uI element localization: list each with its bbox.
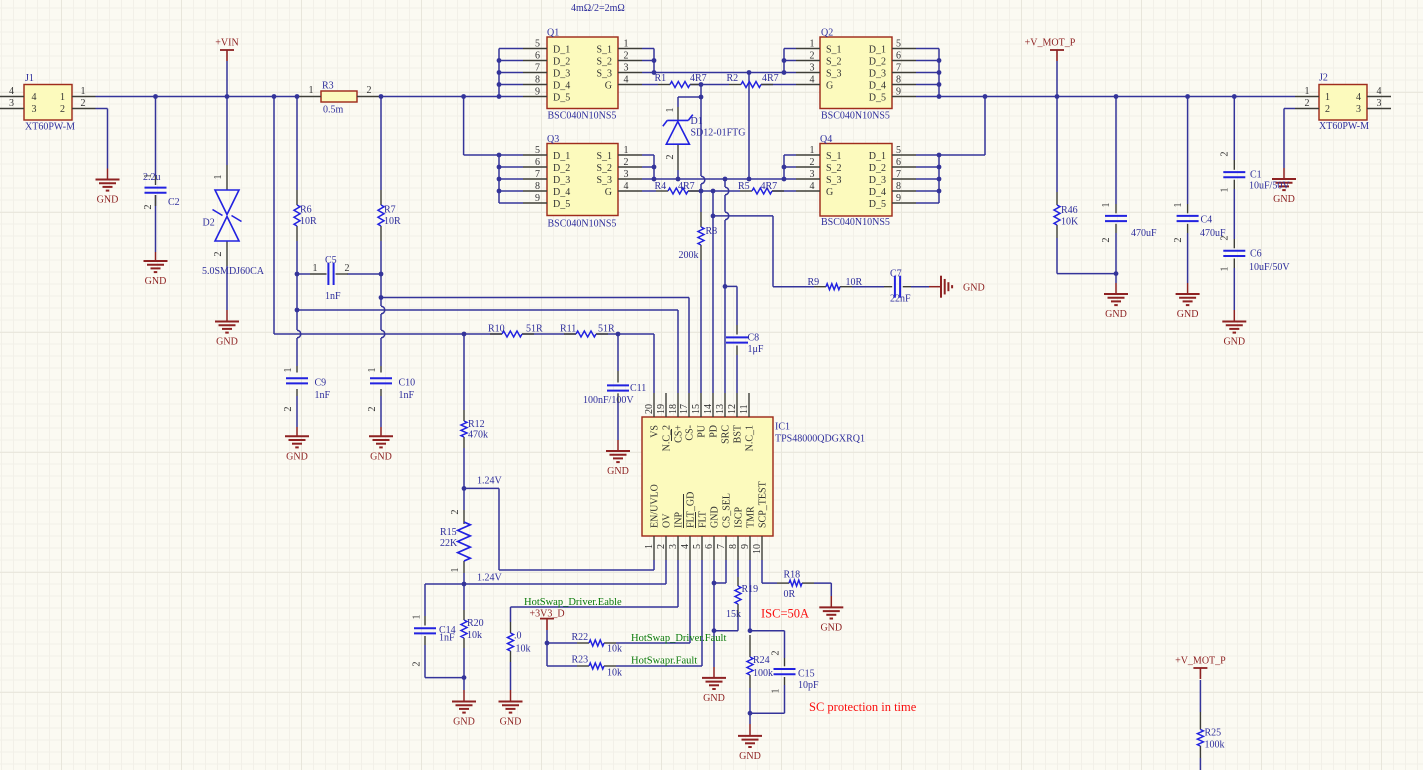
svg-text:C5: C5 bbox=[325, 255, 337, 266]
svg-text:9: 9 bbox=[896, 193, 901, 204]
svg-text:2: 2 bbox=[450, 510, 461, 515]
svg-text:2: 2 bbox=[1220, 152, 1231, 157]
svg-text:FLT: FLT bbox=[697, 511, 708, 528]
svg-text:12: 12 bbox=[727, 404, 738, 414]
svg-text:VS: VS bbox=[649, 425, 660, 438]
svg-text:1: 1 bbox=[283, 368, 294, 373]
svg-text:2: 2 bbox=[283, 407, 294, 412]
svg-text:OV: OV bbox=[661, 513, 672, 528]
svg-text:19: 19 bbox=[656, 404, 667, 414]
svg-text:Q4: Q4 bbox=[820, 134, 832, 145]
svg-text:1nF: 1nF bbox=[399, 390, 415, 401]
svg-text:GND: GND bbox=[1105, 309, 1127, 320]
svg-text:+V_MOT_P: +V_MOT_P bbox=[1025, 38, 1076, 49]
svg-text:470uF: 470uF bbox=[1131, 228, 1157, 239]
svg-text:10R: 10R bbox=[846, 277, 863, 288]
svg-text:SD12-01FTG: SD12-01FTG bbox=[691, 128, 746, 139]
svg-text:R12: R12 bbox=[468, 419, 485, 430]
svg-text:1nF: 1nF bbox=[325, 291, 341, 302]
svg-text:D2: D2 bbox=[203, 218, 215, 229]
svg-text:5: 5 bbox=[535, 39, 540, 50]
svg-text:R3: R3 bbox=[322, 81, 334, 92]
svg-text:D_5: D_5 bbox=[553, 199, 570, 210]
svg-text:1: 1 bbox=[60, 92, 65, 103]
svg-text:2: 2 bbox=[143, 205, 154, 210]
svg-text:2: 2 bbox=[345, 263, 350, 274]
svg-text:7: 7 bbox=[896, 63, 901, 74]
svg-text:1: 1 bbox=[81, 86, 86, 97]
svg-text:TMR: TMR bbox=[745, 506, 756, 528]
svg-text:GND: GND bbox=[216, 337, 238, 348]
svg-text:C10: C10 bbox=[399, 378, 416, 389]
svg-text:S_2: S_2 bbox=[826, 57, 842, 68]
svg-text:R5: R5 bbox=[738, 181, 750, 192]
svg-text:SCP_TEST: SCP_TEST bbox=[757, 481, 768, 528]
svg-text:IC1: IC1 bbox=[775, 422, 790, 433]
svg-text:15k: 15k bbox=[726, 609, 741, 620]
svg-text:D1: D1 bbox=[691, 116, 703, 127]
svg-text:6: 6 bbox=[704, 544, 715, 549]
svg-text:1: 1 bbox=[665, 108, 676, 113]
svg-text:51R: 51R bbox=[526, 324, 543, 335]
svg-text:1: 1 bbox=[143, 174, 154, 179]
svg-text:8: 8 bbox=[896, 181, 901, 192]
svg-text:3: 3 bbox=[32, 104, 37, 115]
svg-text:D_3: D_3 bbox=[553, 175, 570, 186]
svg-text:+VIN: +VIN bbox=[215, 38, 238, 49]
svg-text:1: 1 bbox=[450, 568, 461, 573]
svg-text:100k: 100k bbox=[753, 668, 773, 679]
svg-text:GND: GND bbox=[607, 466, 629, 477]
svg-text:BSC040N10NS5: BSC040N10NS5 bbox=[821, 217, 890, 228]
svg-text:S_1: S_1 bbox=[826, 151, 842, 162]
svg-text:R46: R46 bbox=[1061, 205, 1078, 216]
svg-text:D_5: D_5 bbox=[869, 93, 886, 104]
svg-text:SC protection in time: SC protection in time bbox=[809, 700, 917, 714]
svg-text:D_4: D_4 bbox=[553, 187, 570, 198]
svg-text:10k: 10k bbox=[467, 630, 482, 641]
svg-text:HotSwap_Driver.Fault: HotSwap_Driver.Fault bbox=[631, 633, 726, 644]
svg-text:XT60PW-M: XT60PW-M bbox=[1319, 121, 1369, 132]
svg-text:1μF: 1μF bbox=[748, 344, 764, 355]
svg-text:C15: C15 bbox=[798, 669, 815, 680]
svg-text:D_1: D_1 bbox=[553, 151, 570, 162]
svg-text:R11: R11 bbox=[560, 324, 576, 335]
svg-text:100nF/100V: 100nF/100V bbox=[583, 395, 634, 406]
svg-text:N.C_2: N.C_2 bbox=[661, 425, 672, 451]
svg-text:R23: R23 bbox=[572, 655, 589, 666]
svg-text:1.24V: 1.24V bbox=[477, 476, 503, 487]
svg-text:6: 6 bbox=[896, 51, 901, 62]
svg-text:1: 1 bbox=[1220, 267, 1231, 272]
svg-text:J1: J1 bbox=[25, 73, 34, 84]
svg-text:PU: PU bbox=[696, 424, 707, 438]
svg-text:5: 5 bbox=[692, 544, 703, 549]
svg-text:9: 9 bbox=[896, 87, 901, 98]
svg-text:C8: C8 bbox=[748, 333, 760, 344]
svg-text:D_3: D_3 bbox=[553, 69, 570, 80]
svg-text:GND: GND bbox=[97, 195, 119, 206]
svg-text:R18: R18 bbox=[784, 570, 801, 581]
svg-text:4: 4 bbox=[624, 181, 629, 192]
svg-text:EN/UVLO: EN/UVLO bbox=[649, 484, 660, 528]
svg-text:9: 9 bbox=[535, 193, 540, 204]
svg-text:D_5: D_5 bbox=[553, 93, 570, 104]
svg-text:4: 4 bbox=[624, 75, 629, 86]
svg-text:2: 2 bbox=[81, 98, 86, 109]
svg-text:BSC040N10NS5: BSC040N10NS5 bbox=[548, 219, 617, 230]
svg-text:5: 5 bbox=[535, 145, 540, 156]
svg-text:0R: 0R bbox=[784, 589, 796, 600]
svg-text:10R: 10R bbox=[384, 216, 401, 227]
svg-text:GND: GND bbox=[739, 751, 761, 762]
svg-text:D_3: D_3 bbox=[869, 69, 886, 80]
svg-text:C4: C4 bbox=[1201, 215, 1213, 226]
svg-text:D_2: D_2 bbox=[869, 163, 886, 174]
svg-text:2: 2 bbox=[412, 662, 423, 667]
svg-text:470k: 470k bbox=[468, 430, 488, 441]
svg-text:+3V3_D: +3V3_D bbox=[529, 609, 564, 620]
svg-text:2: 2 bbox=[665, 155, 676, 160]
svg-text:8: 8 bbox=[728, 544, 739, 549]
svg-text:R20: R20 bbox=[467, 618, 484, 629]
svg-text:5: 5 bbox=[896, 39, 901, 50]
svg-text:S_2: S_2 bbox=[826, 163, 842, 174]
svg-text:C6: C6 bbox=[1250, 249, 1262, 260]
svg-text:GND: GND bbox=[453, 717, 475, 728]
svg-text:1: 1 bbox=[309, 85, 314, 96]
svg-text:20: 20 bbox=[644, 404, 655, 414]
svg-text:S_3: S_3 bbox=[826, 69, 842, 80]
svg-text:3: 3 bbox=[9, 98, 14, 109]
svg-text:10K: 10K bbox=[1061, 217, 1079, 228]
svg-text:Q3: Q3 bbox=[547, 134, 559, 145]
svg-text:GND: GND bbox=[500, 717, 522, 728]
svg-text:GND: GND bbox=[703, 693, 725, 704]
svg-text:D_1: D_1 bbox=[553, 45, 570, 56]
svg-text:8: 8 bbox=[535, 75, 540, 86]
svg-text:2: 2 bbox=[771, 651, 782, 656]
svg-text:2: 2 bbox=[810, 157, 815, 168]
svg-text:1: 1 bbox=[1101, 203, 1112, 208]
svg-text:BSC040N10NS5: BSC040N10NS5 bbox=[548, 111, 617, 122]
svg-text:C11: C11 bbox=[630, 383, 646, 394]
svg-text:R6: R6 bbox=[300, 205, 312, 216]
svg-text:TPS48000QDGXRQ1: TPS48000QDGXRQ1 bbox=[775, 434, 865, 445]
svg-text:R4: R4 bbox=[655, 181, 667, 192]
svg-text:2: 2 bbox=[624, 157, 629, 168]
svg-text:7: 7 bbox=[535, 63, 540, 74]
svg-text:D_4: D_4 bbox=[553, 81, 570, 92]
svg-text:2: 2 bbox=[1101, 238, 1112, 243]
svg-text:2: 2 bbox=[1305, 98, 1310, 109]
svg-text:3: 3 bbox=[624, 63, 629, 74]
svg-text:17: 17 bbox=[679, 404, 690, 414]
svg-text:1: 1 bbox=[1173, 203, 1184, 208]
svg-text:C1: C1 bbox=[1250, 170, 1262, 181]
svg-text:R8: R8 bbox=[706, 226, 718, 237]
svg-text:R22: R22 bbox=[572, 632, 589, 643]
svg-text:3: 3 bbox=[668, 544, 679, 549]
svg-text:C2: C2 bbox=[168, 197, 180, 208]
svg-text:7: 7 bbox=[896, 169, 901, 180]
svg-text:6: 6 bbox=[535, 157, 540, 168]
svg-text:15: 15 bbox=[691, 404, 702, 414]
svg-text:D_2: D_2 bbox=[869, 57, 886, 68]
svg-text:S_3: S_3 bbox=[596, 69, 612, 80]
svg-text:CS+: CS+ bbox=[673, 425, 684, 443]
svg-text:0.5m: 0.5m bbox=[323, 105, 344, 116]
svg-text:R1: R1 bbox=[655, 73, 667, 84]
svg-text:GND: GND bbox=[820, 622, 842, 633]
svg-text:D_1: D_1 bbox=[869, 45, 886, 56]
svg-text:3: 3 bbox=[1356, 104, 1361, 115]
svg-text:2: 2 bbox=[60, 104, 65, 115]
svg-text:6: 6 bbox=[535, 51, 540, 62]
svg-text:2: 2 bbox=[367, 85, 372, 96]
svg-text:4R7: 4R7 bbox=[761, 181, 778, 192]
svg-text:R25: R25 bbox=[1205, 728, 1222, 739]
svg-text:2: 2 bbox=[810, 51, 815, 62]
svg-text:7: 7 bbox=[535, 169, 540, 180]
svg-text:100k: 100k bbox=[1205, 740, 1225, 751]
svg-text:R9: R9 bbox=[808, 277, 820, 288]
svg-text:1: 1 bbox=[1325, 92, 1330, 103]
svg-text:200k: 200k bbox=[679, 250, 699, 261]
svg-text:C9: C9 bbox=[315, 378, 327, 389]
svg-text:D_4: D_4 bbox=[869, 187, 886, 198]
svg-text:FLT_GD: FLT_GD bbox=[685, 492, 696, 528]
svg-text:6: 6 bbox=[896, 157, 901, 168]
svg-text:22nF: 22nF bbox=[890, 294, 911, 305]
svg-text:R24: R24 bbox=[753, 655, 770, 666]
svg-text:2: 2 bbox=[1325, 104, 1330, 115]
svg-text:1: 1 bbox=[771, 689, 782, 694]
svg-text:INP: INP bbox=[673, 511, 684, 528]
svg-text:4R7: 4R7 bbox=[690, 73, 707, 84]
svg-text:D_5: D_5 bbox=[869, 199, 886, 210]
svg-text:3: 3 bbox=[810, 169, 815, 180]
svg-text:PD: PD bbox=[708, 425, 719, 438]
svg-text:R15: R15 bbox=[440, 527, 457, 538]
svg-text:ISC=50A: ISC=50A bbox=[761, 607, 809, 621]
svg-text:10k: 10k bbox=[607, 644, 622, 655]
svg-text:1: 1 bbox=[810, 39, 815, 50]
svg-text:D_4: D_4 bbox=[869, 81, 886, 92]
svg-text:2: 2 bbox=[624, 51, 629, 62]
svg-text:1: 1 bbox=[810, 145, 815, 156]
svg-text:4R7: 4R7 bbox=[678, 181, 695, 192]
svg-text:2: 2 bbox=[367, 407, 378, 412]
svg-text:11: 11 bbox=[739, 404, 750, 414]
svg-text:1: 1 bbox=[1305, 86, 1310, 97]
svg-text:1nF: 1nF bbox=[439, 633, 455, 644]
svg-text:D_2: D_2 bbox=[553, 163, 570, 174]
svg-text:D_1: D_1 bbox=[869, 151, 886, 162]
svg-text:5.0SMDJ60CA: 5.0SMDJ60CA bbox=[202, 266, 265, 277]
svg-text:G: G bbox=[605, 187, 612, 198]
svg-text:1: 1 bbox=[644, 544, 655, 549]
svg-text:S_1: S_1 bbox=[596, 45, 612, 56]
svg-text:J2: J2 bbox=[1319, 73, 1328, 84]
svg-text:9: 9 bbox=[740, 544, 751, 549]
svg-text:10R: 10R bbox=[300, 216, 317, 227]
svg-text:10uF/50V: 10uF/50V bbox=[1249, 262, 1290, 273]
svg-text:10: 10 bbox=[752, 544, 763, 554]
svg-text:2: 2 bbox=[213, 252, 224, 257]
svg-text:S_1: S_1 bbox=[826, 45, 842, 56]
svg-text:SRC: SRC bbox=[720, 425, 731, 444]
svg-text:D_2: D_2 bbox=[553, 57, 570, 68]
svg-text:4R7: 4R7 bbox=[762, 73, 779, 84]
svg-text:10k: 10k bbox=[607, 668, 622, 679]
svg-text:S_3: S_3 bbox=[596, 175, 612, 186]
svg-text:18: 18 bbox=[668, 404, 679, 414]
svg-text:4: 4 bbox=[1356, 92, 1361, 103]
svg-text:G: G bbox=[605, 81, 612, 92]
svg-text:1: 1 bbox=[1220, 188, 1231, 193]
svg-text:4: 4 bbox=[680, 544, 691, 549]
svg-text:HotSwapr.Fault: HotSwapr.Fault bbox=[631, 656, 697, 667]
svg-text:Q1: Q1 bbox=[547, 28, 559, 39]
svg-text:C7: C7 bbox=[890, 269, 902, 280]
svg-text:7: 7 bbox=[716, 544, 727, 549]
svg-text:10pF: 10pF bbox=[798, 680, 819, 691]
svg-text:4: 4 bbox=[810, 75, 815, 86]
svg-text:GND: GND bbox=[709, 506, 720, 528]
svg-text:14: 14 bbox=[703, 404, 714, 414]
svg-text:R19: R19 bbox=[742, 584, 759, 595]
svg-text:22K: 22K bbox=[440, 538, 458, 549]
svg-text:9: 9 bbox=[535, 87, 540, 98]
svg-text:1nF: 1nF bbox=[315, 390, 331, 401]
svg-text:.0: .0 bbox=[514, 631, 522, 642]
svg-text:S_1: S_1 bbox=[596, 151, 612, 162]
svg-text:G: G bbox=[826, 187, 833, 198]
svg-text:GND: GND bbox=[1273, 194, 1295, 205]
svg-text:GND: GND bbox=[145, 276, 167, 287]
svg-text:3: 3 bbox=[810, 63, 815, 74]
svg-text:1: 1 bbox=[213, 175, 224, 180]
svg-text:R2: R2 bbox=[727, 73, 739, 84]
svg-text:CS-: CS- bbox=[684, 425, 695, 441]
svg-text:R7: R7 bbox=[384, 205, 396, 216]
svg-text:+V_MOT_P: +V_MOT_P bbox=[1175, 656, 1226, 667]
svg-text:8: 8 bbox=[535, 181, 540, 192]
svg-text:1: 1 bbox=[624, 145, 629, 156]
svg-text:R10: R10 bbox=[488, 324, 505, 335]
svg-text:4: 4 bbox=[32, 92, 37, 103]
svg-text:1: 1 bbox=[367, 368, 378, 373]
svg-text:BST: BST bbox=[732, 425, 743, 443]
svg-text:4: 4 bbox=[1377, 86, 1382, 97]
svg-text:3: 3 bbox=[1377, 98, 1382, 109]
svg-text:GND: GND bbox=[1177, 309, 1199, 320]
svg-text:3: 3 bbox=[624, 169, 629, 180]
svg-text:2: 2 bbox=[1173, 238, 1184, 243]
svg-text:10uF/50V: 10uF/50V bbox=[1249, 181, 1290, 192]
svg-text:XT60PW-M: XT60PW-M bbox=[25, 122, 75, 133]
svg-text:N.C_1: N.C_1 bbox=[744, 425, 755, 451]
svg-text:4: 4 bbox=[9, 86, 14, 97]
svg-text:1.24V: 1.24V bbox=[477, 573, 503, 584]
svg-text:GND: GND bbox=[286, 451, 308, 462]
svg-text:GND: GND bbox=[370, 451, 392, 462]
svg-text:GND: GND bbox=[1223, 337, 1245, 348]
svg-text:1: 1 bbox=[412, 615, 423, 620]
svg-text:10k: 10k bbox=[516, 644, 531, 655]
svg-text:51R: 51R bbox=[598, 324, 615, 335]
svg-text:GND: GND bbox=[963, 283, 985, 294]
svg-text:D_3: D_3 bbox=[869, 175, 886, 186]
svg-text:4mΩ/2=2mΩ: 4mΩ/2=2mΩ bbox=[571, 3, 625, 14]
svg-text:ISCP: ISCP bbox=[733, 506, 744, 528]
svg-text:G: G bbox=[826, 81, 833, 92]
svg-text:BSC040N10NS5: BSC040N10NS5 bbox=[821, 111, 890, 122]
svg-text:2: 2 bbox=[1220, 236, 1231, 241]
svg-text:S_2: S_2 bbox=[596, 57, 612, 68]
svg-text:Q2: Q2 bbox=[821, 28, 833, 39]
svg-text:5: 5 bbox=[896, 145, 901, 156]
svg-text:13: 13 bbox=[715, 404, 726, 414]
svg-text:4: 4 bbox=[810, 181, 815, 192]
svg-text:2: 2 bbox=[656, 544, 667, 549]
svg-text:HotSwap_Driver.Eable: HotSwap_Driver.Eable bbox=[524, 597, 622, 608]
svg-text:1: 1 bbox=[313, 263, 318, 274]
svg-text:CS_SEL: CS_SEL bbox=[721, 493, 732, 528]
svg-text:1: 1 bbox=[624, 39, 629, 50]
svg-text:S_2: S_2 bbox=[596, 163, 612, 174]
svg-text:8: 8 bbox=[896, 75, 901, 86]
svg-text:S_3: S_3 bbox=[826, 175, 842, 186]
